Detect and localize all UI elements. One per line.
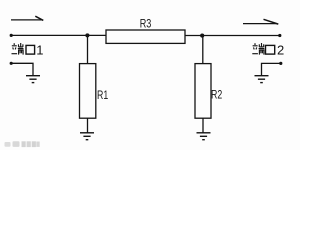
wire top-left: port1 terminal to R3 — [11, 34, 106, 36]
wire top-right: R3 to port2 terminal — [185, 35, 280, 37]
wire: junction to R1 top — [87, 35, 89, 63]
glyph 端 — [252, 43, 264, 55]
label 端口1 (port 1) — [12, 43, 35, 55]
node: junction R2/R3 — [200, 34, 204, 38]
current arrow port 2 — [243, 19, 278, 24]
resistor R3 body — [106, 30, 185, 43]
resistor R2 body — [195, 64, 211, 119]
ground at port 2 — [255, 76, 269, 83]
svg-text:2: 2 — [277, 42, 284, 57]
label 端口2 (port 2) — [252, 43, 274, 55]
wire: R1 bottom to ground — [87, 118, 89, 132]
glyph 端 — [12, 43, 24, 55]
svg-text:R1: R1 — [97, 88, 108, 102]
glyph 口 — [26, 45, 35, 54]
wire: junction to R2 top — [202, 36, 204, 64]
svg-text:1: 1 — [36, 42, 43, 57]
wire: port1 lower terminal to ground — [11, 63, 33, 75]
svg-text:R2: R2 — [211, 88, 222, 102]
glyph 口 — [266, 45, 275, 54]
node: junction R1/R3 — [85, 33, 89, 37]
watermark bottom-left — [5, 141, 40, 147]
node: port2 terminal dot — [278, 34, 281, 37]
current arrow port 1 — [11, 16, 43, 20]
resistor R1 body — [80, 64, 96, 119]
node: port1 lower terminal dot — [10, 62, 13, 65]
svg-text:R3: R3 — [140, 16, 152, 30]
ground at port 1 — [26, 76, 40, 83]
wire: R2 bottom to ground — [202, 118, 204, 132]
ground under R1 — [80, 133, 94, 140]
node: port2 lower terminal dot — [279, 62, 282, 65]
node: port1 terminal dot — [10, 34, 13, 37]
wire: port2 lower terminal to ground — [262, 63, 282, 75]
ground under R2 — [197, 133, 211, 140]
